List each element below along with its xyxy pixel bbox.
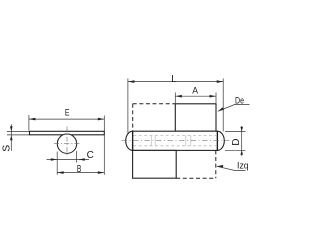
dimension B arrow right bbox=[98, 171, 105, 174]
svg-text:E: E bbox=[65, 108, 70, 119]
svg-text:B: B bbox=[77, 164, 82, 175]
L extension line right bbox=[222, 79, 224, 132]
dimension C line bbox=[47, 159, 90, 161]
svg-text:S: S bbox=[1, 145, 13, 152]
A extension line left bbox=[174, 93, 176, 104]
dimension L arrow right bbox=[217, 80, 224, 83]
E extension line left bbox=[28, 115, 30, 131]
D extension line top bbox=[225, 130, 246, 132]
knuckle joint hidden marks right pair bbox=[185, 135, 187, 145]
A extension line right bbox=[215, 93, 217, 104]
Izq leader line bbox=[217, 166, 246, 170]
C extension line right bbox=[75, 151, 77, 163]
dimension S arrow lower bbox=[10, 135, 13, 140]
dimension E arrow left bbox=[29, 118, 36, 121]
right leaf (top, solid) bbox=[175, 104, 216, 131]
shared extension line right (E above, B below) bbox=[103, 116, 105, 175]
De leader line bbox=[218, 104, 250, 111]
knuckle circle bbox=[57, 134, 76, 153]
hidden leaf (bottom-right, dashed) right edge bbox=[215, 150, 217, 178]
L extension line left bbox=[127, 79, 129, 147]
dimension L arrow left bbox=[128, 80, 134, 83]
dimension C arrow right bbox=[78, 158, 84, 161]
dimension S line bbox=[10, 124, 12, 151]
hidden leaf (top-left, dashed) left edge bbox=[132, 104, 134, 131]
svg-text:A: A bbox=[192, 85, 198, 96]
barrel right end face bbox=[216, 131, 218, 151]
dimension E arrow right bbox=[98, 118, 105, 121]
dimension A arrow right bbox=[210, 95, 217, 98]
dimension D line bbox=[241, 126, 243, 156]
De leader arrow bbox=[218, 107, 225, 111]
barrel centerline bbox=[122, 140, 230, 142]
pin bore hidden line bottom bbox=[134, 145, 218, 147]
dimension E line bbox=[29, 118, 104, 120]
dimension D arrow top bbox=[240, 127, 243, 131]
barrel right dome cap bbox=[217, 131, 224, 150]
leaf plate (side view) bbox=[30, 131, 105, 135]
left leaf (bottom, solid) bbox=[133, 150, 177, 178]
S extension line bottom bbox=[7, 134, 30, 136]
svg-text:L: L bbox=[171, 73, 177, 85]
knuckle horizontal centerline bbox=[54, 143, 80, 145]
svg-text:Izq: Izq bbox=[237, 161, 249, 172]
dimension A line bbox=[175, 95, 216, 97]
knuckle vertical centerline bbox=[66, 127, 68, 158]
dimension B line bbox=[57, 172, 104, 174]
pin bore hidden line top bbox=[134, 134, 218, 136]
barrel body bbox=[133, 131, 218, 150]
dimension S arrow upper bbox=[10, 126, 13, 131]
Izq leader arrow bbox=[217, 165, 224, 168]
dimension A arrow left bbox=[175, 95, 182, 98]
D extension line bottom bbox=[225, 149, 246, 151]
svg-text:De: De bbox=[235, 96, 244, 107]
S extension line top bbox=[7, 131, 30, 133]
dimension D arrow bottom bbox=[240, 150, 243, 155]
svg-text:D: D bbox=[231, 139, 242, 146]
dimension C arrow left bbox=[51, 158, 57, 161]
dimension L line bbox=[128, 81, 223, 83]
hidden leaf (bottom-right, dashed) bottom edge bbox=[176, 177, 216, 179]
barrel left dome cap bbox=[126, 131, 133, 150]
barrel left end face bbox=[132, 131, 134, 151]
svg-text:C: C bbox=[87, 150, 94, 161]
knuckle joint hidden marks left pair bbox=[150, 135, 152, 145]
dimension B arrow left bbox=[57, 171, 64, 174]
hidden leaf (top-left, dashed) top edge bbox=[133, 103, 176, 105]
shared extension line (C left, B left) bbox=[56, 152, 58, 175]
